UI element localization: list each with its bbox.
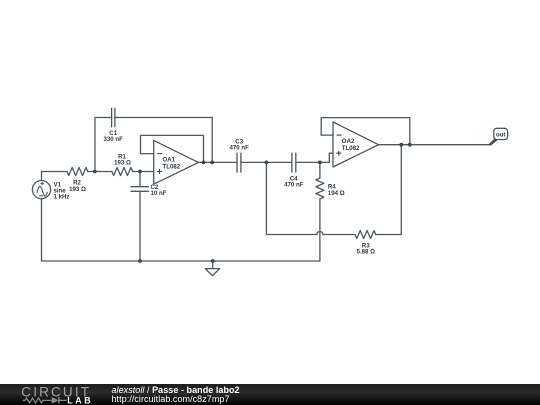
node R2/R1/C1 junction	[93, 170, 97, 174]
OA1 plus sign	[157, 169, 162, 174]
wire OA2 output to out flag	[379, 144, 491, 146]
wire C1 left branch	[95, 118, 112, 172]
footer banner	[0, 384, 540, 405]
out flag pointer	[490, 140, 495, 145]
op-amp U2 triangle	[333, 122, 379, 167]
V1 sine squiggle	[37, 186, 47, 196]
op-amp U1 triangle	[154, 140, 199, 184]
node output/R3 junction	[399, 143, 403, 147]
wire OA2 inverting input	[321, 134, 333, 136]
capacitor C1	[112, 108, 115, 127]
out flag pointer fill	[488, 139, 499, 145]
wire R2 to R1	[88, 171, 112, 173]
resistor R2	[67, 168, 88, 176]
OA2 plus sign	[336, 151, 341, 156]
out flag box	[494, 128, 508, 139]
voltage source V1 circle	[32, 181, 50, 199]
wire OA1 feedback loop	[141, 135, 204, 162]
wire C1 right branch	[115, 118, 212, 163]
wire V1 top to R2	[42, 172, 68, 181]
svg-text:193 Ω: 193 Ω	[69, 186, 86, 193]
svg-text:5.88 Ω: 5.88 Ω	[357, 249, 376, 256]
wire bottom rail	[42, 260, 320, 262]
node C2/rail junction	[138, 259, 142, 263]
capacitor C4	[292, 153, 296, 172]
V1 plus sign	[41, 182, 44, 185]
svg-text:10 nF: 10 nF	[151, 190, 167, 197]
capacitor C2	[131, 187, 149, 192]
svg-text:out: out	[496, 132, 505, 138]
wire OA2 feedback loop	[321, 118, 410, 145]
svg-text:470 nF: 470 nF	[284, 182, 304, 189]
resistor R1	[112, 168, 133, 176]
svg-text:470 nF: 470 nF	[230, 145, 250, 152]
svg-text:TL082: TL082	[163, 164, 181, 171]
node R1/C2/+in junction	[138, 170, 142, 174]
OA1 minus sign	[157, 153, 162, 155]
banner title text	[112, 386, 240, 404]
node OA1 output/C1 junction	[210, 161, 214, 165]
logo diode	[52, 397, 59, 404]
ground	[205, 261, 219, 276]
node C4/R4 junction	[318, 161, 322, 165]
wire C3 to C4	[241, 161, 292, 163]
node OA1 output/feedback junction	[202, 161, 206, 165]
svg-text:194 Ω: 194 Ω	[328, 190, 345, 197]
node ground junction	[211, 259, 215, 263]
svg-text:330 nF: 330 nF	[104, 136, 124, 143]
wire R1 to OA1 + input	[133, 171, 154, 173]
svg-text:LAB: LAB	[67, 396, 93, 405]
svg-text:TL082: TL082	[342, 145, 360, 152]
svg-text:193 Ω: 193 Ω	[114, 160, 131, 167]
wire R3 to output node	[376, 145, 402, 235]
logo resistor zigzag	[23, 398, 52, 403]
wire OA1 inverting input	[141, 153, 154, 155]
resistor R3	[355, 231, 376, 239]
svg-text:1 kHz: 1 kHz	[54, 194, 70, 201]
OA2 minus sign	[337, 134, 342, 136]
node C3/C4 junction	[265, 161, 269, 165]
capacitor C2 lead bottom	[139, 191, 141, 261]
CircuitLab logo	[0, 384, 100, 405]
wire V1 bottom	[41, 199, 43, 261]
node output/feedback junction	[408, 143, 412, 147]
resistor R4	[316, 162, 324, 261]
wire OA1 output	[199, 161, 238, 163]
capacitor C2 lead top	[139, 172, 141, 187]
capacitor C3	[237, 153, 241, 172]
wire node to R3 with hop over R4	[266, 162, 355, 234]
V1 minus sign	[39, 195, 43, 197]
wire C4 to OA2 + input	[296, 153, 333, 162]
